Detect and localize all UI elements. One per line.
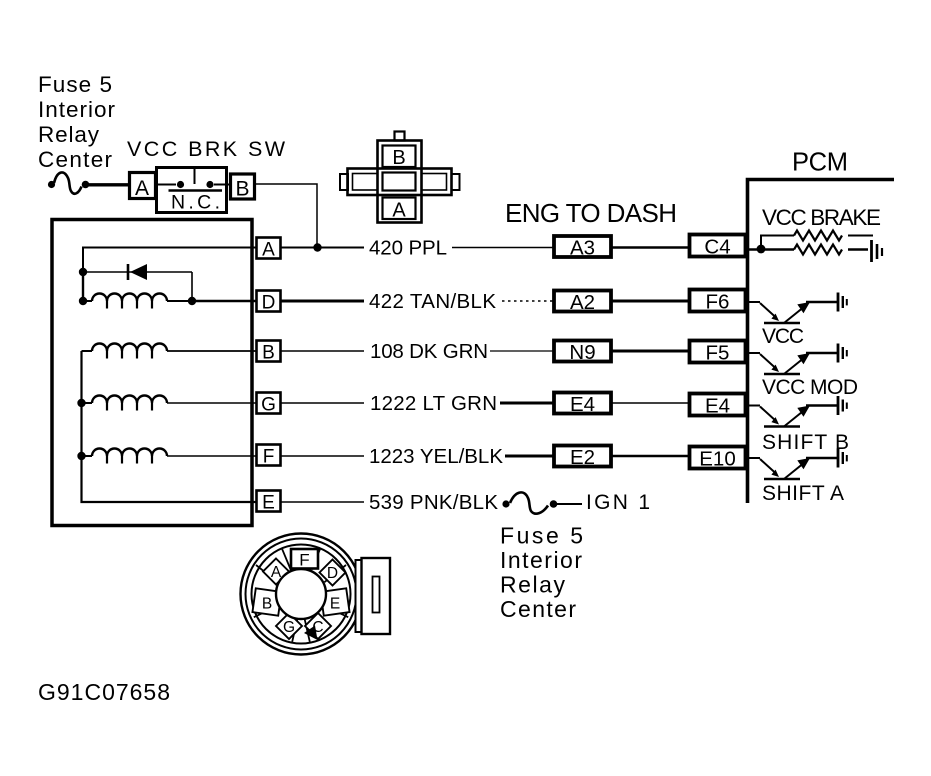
wire 420 PPL (row A) — [280, 247, 690, 249]
connector cavity G — [276, 613, 302, 639]
terminal B box — [257, 341, 281, 364]
svg-text:B: B — [262, 596, 272, 613]
junction node on 420 PPL wire — [313, 243, 321, 251]
wire splice squiggle from fuse 5 — [48, 172, 129, 193]
svg-text:E: E — [330, 596, 340, 613]
wire 108 DK GRN (row B) — [280, 350, 690, 352]
svg-text:VCC BRAKE: VCC BRAKE — [762, 205, 881, 230]
connector pin letters — [262, 551, 340, 637]
connector side key tab — [356, 558, 391, 634]
terminal A box — [257, 238, 281, 261]
svg-text:Center: Center — [500, 596, 576, 622]
splice squiggle to IGN 1 — [502, 492, 582, 513]
solenoid coil (B row) — [82, 344, 257, 359]
connector pin E2 — [554, 446, 611, 470]
terminal F box — [257, 445, 281, 468]
connector pin A2 — [554, 291, 611, 315]
svg-text:SHIFT A: SHIFT A — [762, 482, 844, 505]
svg-text:A: A — [262, 240, 275, 261]
svg-text:C4: C4 — [704, 236, 730, 259]
wire 422 TAN/BLK (row D) — [280, 300, 690, 303]
svg-text:G: G — [261, 395, 276, 416]
connector pin F5 — [690, 341, 746, 365]
svg-text:Relay: Relay — [500, 572, 566, 598]
svg-text:G: G — [283, 619, 295, 636]
svg-text:B: B — [235, 178, 249, 201]
svg-text:B: B — [392, 147, 405, 169]
connector spokes — [254, 549, 348, 642]
round connector (7-way) — [241, 534, 362, 655]
svg-text:F: F — [263, 447, 275, 468]
svg-text:Interior: Interior — [500, 547, 582, 573]
internal wire from terminal A — [83, 248, 256, 269]
svg-text:E4: E4 — [570, 393, 595, 416]
connector pin E4 (pcm side) — [690, 394, 746, 418]
terminal D box — [257, 291, 281, 314]
svg-text:1223 YEL/BLK: 1223 YEL/BLK — [369, 445, 503, 468]
svg-text:G91C07658: G91C07658 — [38, 679, 170, 705]
svg-text:A: A — [135, 177, 149, 200]
connector pin E4 (eng side) — [554, 393, 611, 417]
connector cavity C — [305, 613, 331, 639]
svg-text:VCC MOD: VCC MOD — [762, 376, 858, 399]
svg-text:VCC BRK SW: VCC BRK SW — [127, 137, 286, 161]
resistor VCC BRAKE upper — [761, 231, 873, 250]
svg-text:B: B — [262, 343, 275, 364]
svg-text:E4: E4 — [705, 395, 730, 418]
svg-text:SHIFT B: SHIFT B — [762, 431, 849, 454]
svg-text:E: E — [262, 493, 275, 514]
svg-text:N9: N9 — [569, 341, 595, 364]
solenoid coil (D row) — [87, 294, 256, 309]
connector pin C4 — [690, 235, 746, 259]
junction node — [79, 268, 87, 276]
PCM outline — [748, 180, 895, 504]
label: Fuse 5 Interior Relay Center (top left) — [38, 72, 116, 172]
terminal E box — [257, 491, 281, 514]
svg-text:D: D — [262, 293, 276, 314]
wire from switch B down to node on 420 PPL — [255, 184, 317, 244]
svg-text:IGN 1: IGN 1 — [586, 491, 650, 514]
svg-text:C: C — [312, 619, 323, 636]
svg-text:Fuse 5: Fuse 5 — [38, 72, 112, 97]
svg-text:E10: E10 — [699, 448, 735, 471]
svg-text:A: A — [271, 564, 282, 581]
svg-text:1222 LT GRN: 1222 LT GRN — [370, 392, 497, 415]
svg-text:539 PNK/BLK: 539 PNK/BLK — [369, 491, 498, 514]
switch VCC BRK SW body — [157, 167, 230, 213]
svg-text:VCC: VCC — [762, 325, 804, 348]
wire 1222 LT GRN (row G) — [280, 402, 690, 404]
svg-text:Fuse 5: Fuse 5 — [500, 523, 583, 549]
connector pin E10 — [690, 447, 746, 471]
solenoid coil (F row) — [85, 449, 256, 464]
svg-text:ENG TO DASH: ENG TO DASH — [505, 198, 677, 228]
switch terminal A — [130, 173, 156, 201]
svg-text:F6: F6 — [706, 291, 730, 314]
label: Fuse 5 Interior Relay Center (bottom) — [500, 523, 583, 623]
svg-text:A2: A2 — [570, 291, 595, 314]
svg-text:Relay: Relay — [38, 122, 100, 147]
wire A-D link — [82, 276, 84, 297]
connector cavity A — [263, 559, 289, 585]
relay / solenoid assembly box — [52, 220, 252, 526]
svg-text:Center: Center — [38, 147, 113, 172]
connector cavity E — [320, 588, 349, 615]
junction node — [77, 452, 85, 460]
ground (VCC BRAKE) — [872, 240, 883, 262]
junction node — [79, 297, 87, 305]
svg-text:F5: F5 — [706, 342, 730, 365]
transistor VCC (F6) — [748, 293, 847, 324]
connector cavity B — [252, 588, 281, 615]
transistor SHIFT A (E10) — [748, 449, 847, 480]
connector cavity F — [291, 549, 318, 569]
diode (clamp) — [87, 264, 192, 297]
resistor VCC BRAKE lower — [746, 245, 868, 255]
connector inner bore — [276, 569, 326, 619]
internal bus wire (B-G-F-E) — [82, 351, 257, 502]
junction node — [188, 297, 196, 305]
connector pin A3 — [554, 236, 611, 260]
node junction after C4 — [757, 245, 766, 254]
svg-text:422 TAN/BLK: 422 TAN/BLK — [369, 290, 496, 313]
connector pin N9 — [554, 341, 611, 365]
connector cavity D — [320, 560, 346, 586]
transistor VCC MOD (F5) — [748, 344, 847, 375]
transistor SHIFT B (E4) — [748, 396, 847, 427]
svg-text:108 DK GRN: 108 DK GRN — [370, 340, 488, 363]
svg-text:PCM: PCM — [792, 149, 848, 177]
terminal G box — [257, 393, 281, 416]
svg-text:A3: A3 — [570, 237, 595, 260]
solenoid coil (G row) — [85, 396, 256, 411]
switch terminal B — [231, 174, 255, 201]
wire 1223 YEL/BLK (row F) — [280, 455, 690, 457]
svg-text:420 PPL: 420 PPL — [369, 237, 447, 260]
connector key wedge mark — [304, 626, 318, 641]
connector C100 (4-way cross) — [340, 132, 460, 223]
svg-text:D: D — [327, 565, 338, 582]
svg-text:E2: E2 — [570, 446, 595, 469]
connector pin F6 — [690, 290, 746, 314]
wire 539 PNK/BLK (row E) — [280, 501, 364, 503]
svg-text:Interior: Interior — [38, 97, 116, 122]
junction node — [77, 399, 85, 407]
svg-text:F: F — [299, 551, 309, 570]
svg-text:A: A — [392, 200, 406, 222]
